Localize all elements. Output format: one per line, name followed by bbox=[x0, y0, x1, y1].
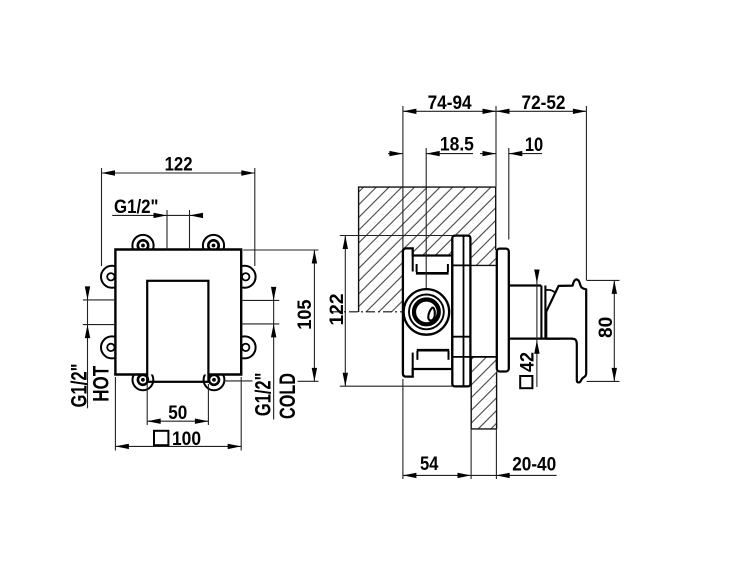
svg-text:20-40: 20-40 bbox=[512, 454, 556, 475]
svg-text:72-52: 72-52 bbox=[522, 93, 566, 114]
svg-text:42: 42 bbox=[518, 352, 539, 372]
svg-text:54: 54 bbox=[420, 454, 439, 475]
svg-text:122: 122 bbox=[327, 294, 348, 326]
svg-text:HOT: HOT bbox=[88, 365, 113, 401]
svg-text:105: 105 bbox=[295, 299, 316, 330]
svg-text:COLD: COLD bbox=[275, 373, 300, 419]
svg-text:G1/2": G1/2" bbox=[251, 373, 276, 417]
svg-text:10: 10 bbox=[525, 135, 543, 156]
svg-text:100: 100 bbox=[172, 429, 201, 450]
svg-text:74-94: 74-94 bbox=[428, 93, 472, 114]
svg-text:50: 50 bbox=[168, 403, 187, 424]
svg-text:18.5: 18.5 bbox=[440, 134, 474, 155]
svg-text:80: 80 bbox=[596, 317, 617, 338]
svg-text:G1/2": G1/2" bbox=[114, 197, 159, 218]
svg-text:122: 122 bbox=[165, 155, 193, 176]
